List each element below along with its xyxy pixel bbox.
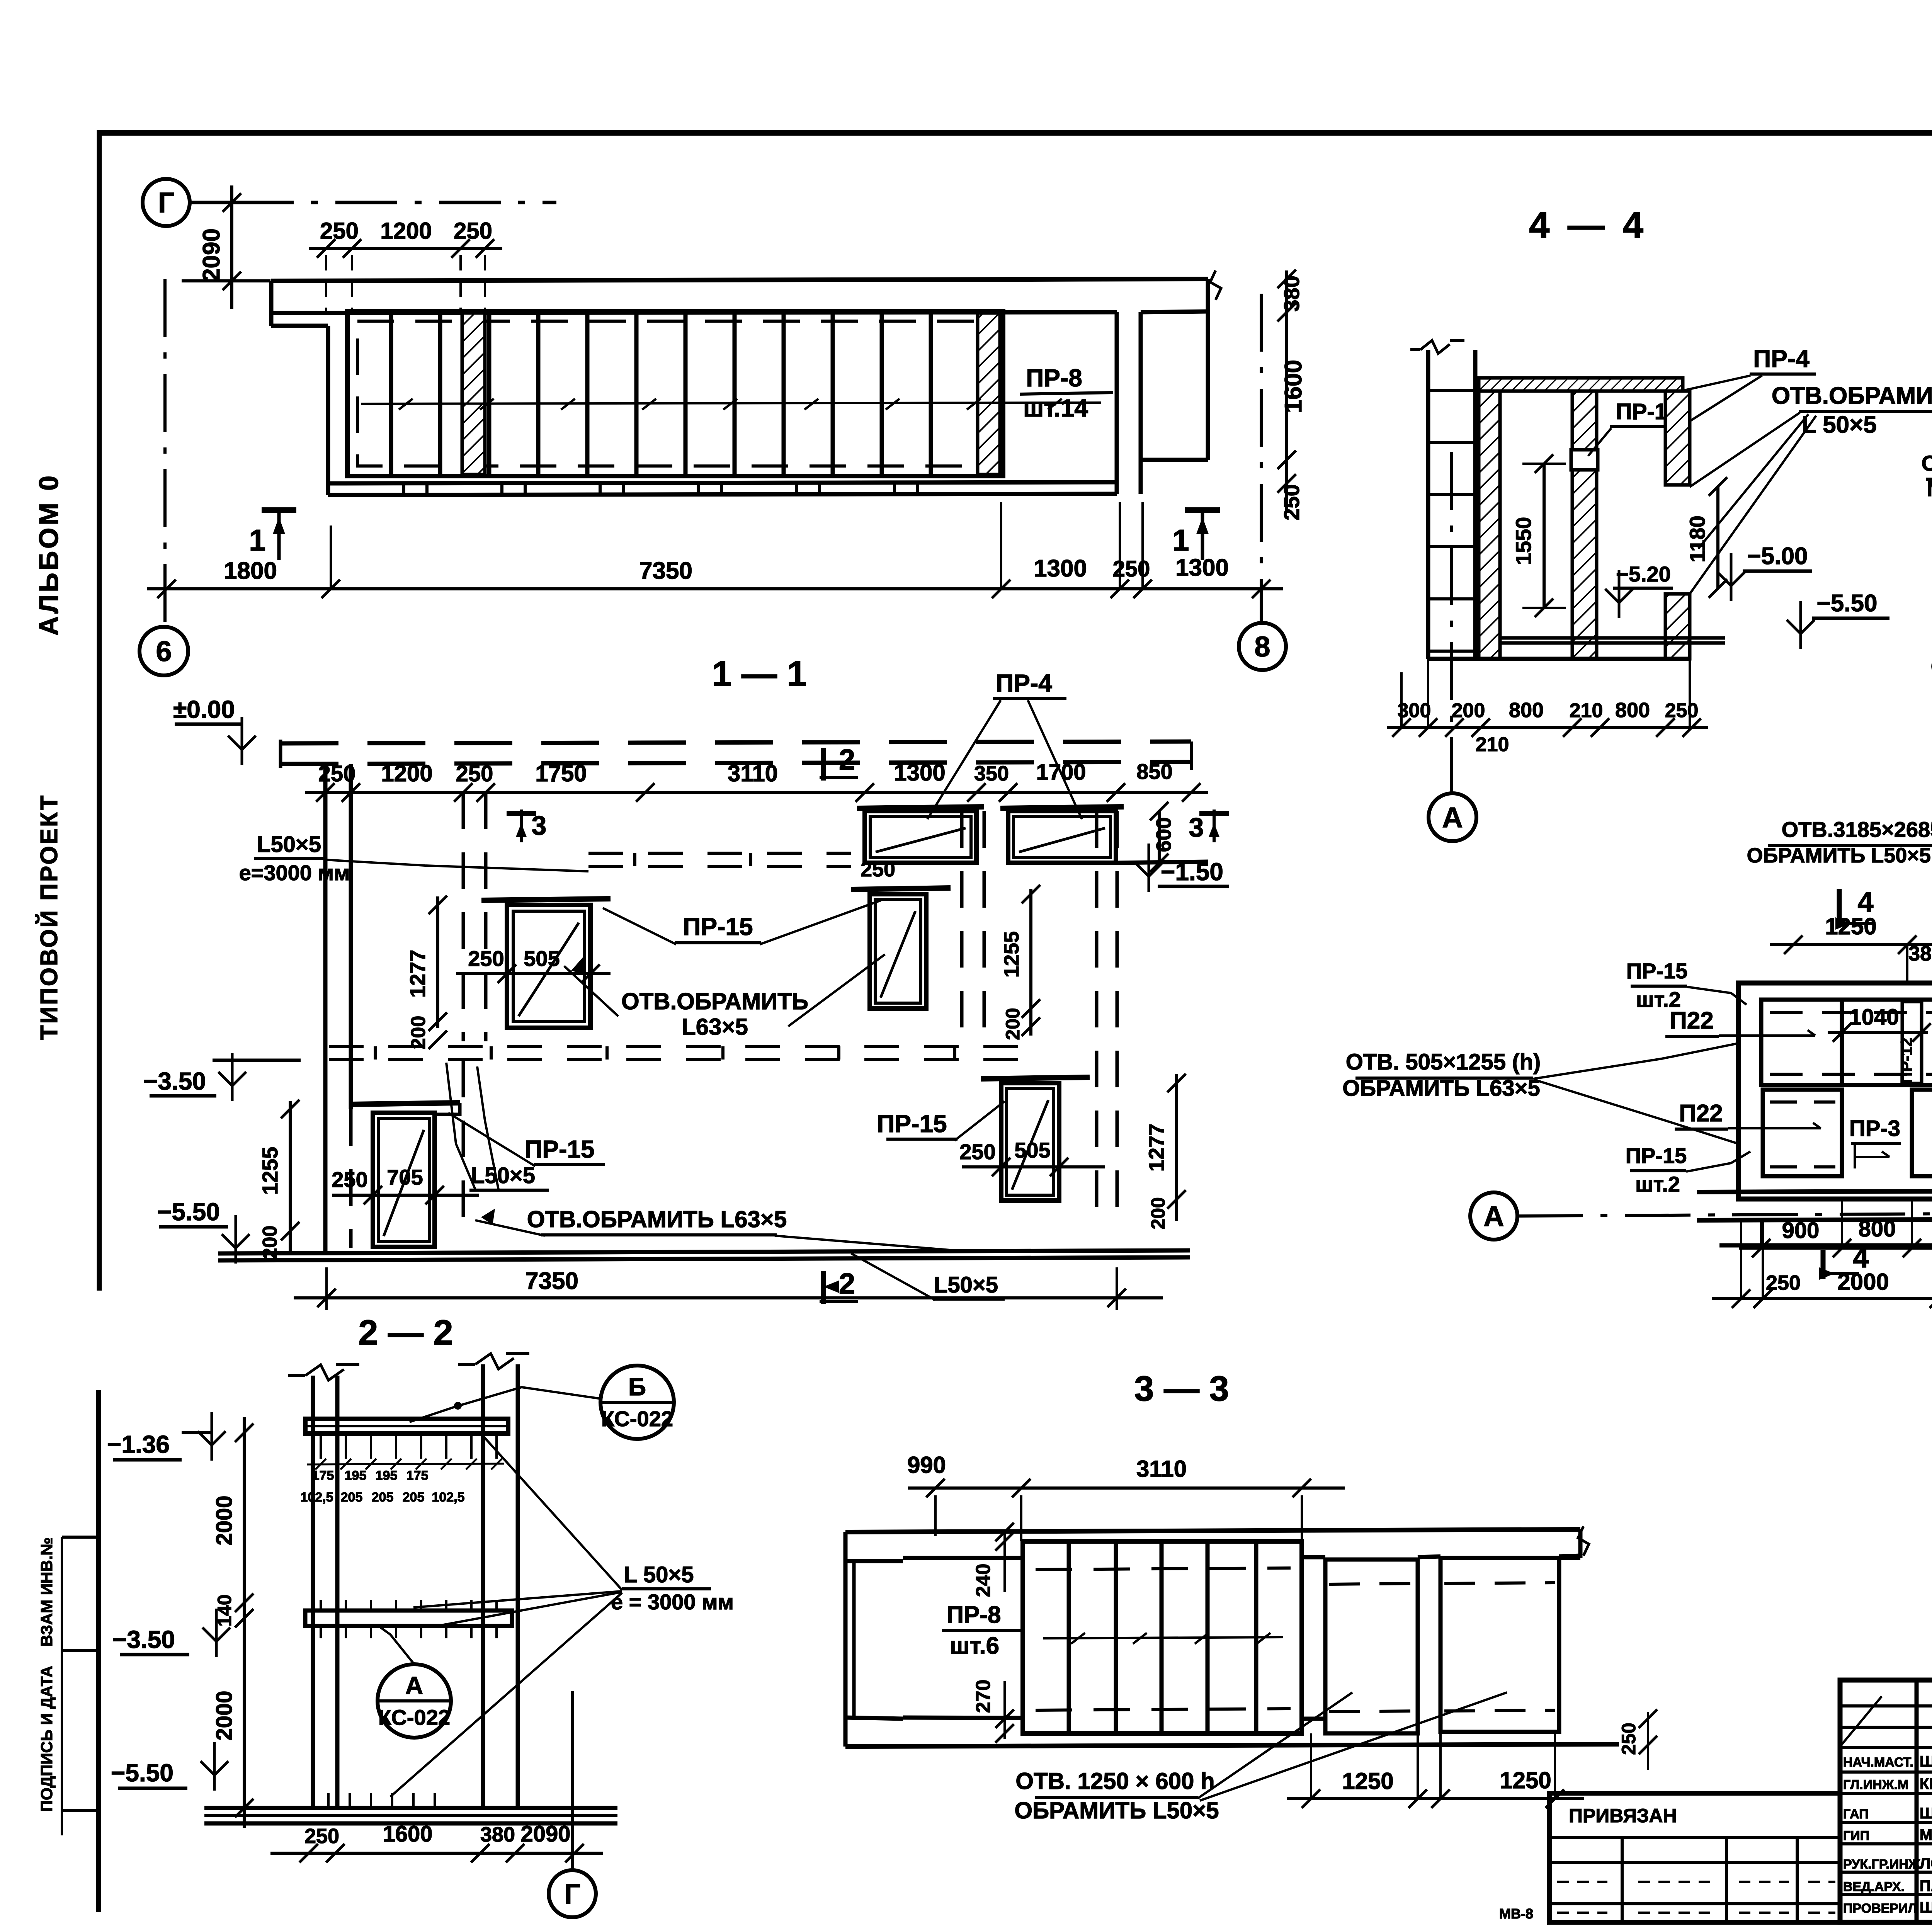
svg-text:250: 250 [456,761,493,786]
svg-text:1250: 1250 [1500,1767,1551,1793]
svg-text:А: А [405,1672,423,1699]
svg-text:ВЗАМ ИНВ.№: ВЗАМ ИНВ.№ [37,1537,56,1646]
vertical dim 2090 [230,185,233,309]
dim 1550 [1543,464,1546,608]
svg-text:КРИЧЕВСКИЙ: КРИЧЕВСКИЙ [1920,1775,1932,1793]
duct inner top line 3-3 [903,1556,1023,1560]
svg-text:250: 250 [1113,556,1150,582]
svg-text:ВЕД.АРХ.: ВЕД.АРХ. [1843,1879,1905,1894]
bottom dims 2-2 [270,1852,603,1855]
plan bottom wall lines [328,482,1117,483]
svg-text:380: 380 [1908,942,1932,965]
svg-text:−5.00: −5.00 [1747,543,1808,570]
opening ПР-3 left [1763,1090,1842,1176]
svg-text:210: 210 [1570,699,1603,722]
svg-text:ПОДПИСЬ И ДАТА: ПОДПИСЬ И ДАТА [37,1666,56,1812]
small dims row [307,1464,504,1464]
dims 1250 1250 [1287,1797,1584,1800]
svg-text:250: 250 [1766,1271,1801,1294]
svg-text:195: 195 [345,1468,367,1483]
-3.50 level [213,1059,301,1062]
ПР-1 insert [1571,450,1598,470]
svg-text:−5.20: −5.20 [1616,562,1671,586]
vertical dims 2000/140/2000 [243,1417,246,1828]
opening 1250x600 #1 [1325,1560,1418,1733]
plan left wall corner [269,281,274,326]
svg-text:3 — 3: 3 — 3 [1134,1369,1229,1408]
svg-text:1250: 1250 [1342,1768,1393,1794]
plan top wall line [271,279,1208,281]
signature table [1840,1680,1932,1922]
svg-text:ПР-8: ПР-8 [946,1602,1001,1628]
svg-text:L 50×5: L 50×5 [1802,412,1877,438]
svg-text:ОТВ.ОБРАМИТЬ L63×5: ОТВ.ОБРАМИТЬ L63×5 [527,1206,787,1232]
ПР-12 box [1902,1002,1922,1083]
svg-text:МВ-8: МВ-8 [1499,1906,1533,1922]
svg-text:250: 250 [959,1139,995,1164]
svg-text:102,5: 102,5 [432,1490,464,1505]
svg-text:ПР-15: ПР-15 [877,1110,947,1138]
svg-text:ОТВ. 1250 × 600 h: ОТВ. 1250 × 600 h [1015,1768,1214,1794]
svg-text:250: 250 [1665,699,1699,722]
floor slab [204,1806,617,1810]
svg-text:505: 505 [524,946,560,971]
rebar ticks floor [327,1793,330,1808]
right wall upper [1665,391,1690,485]
stamp ПРИВЯЗАН [1549,1793,1840,1922]
svg-text:850: 850 [1136,759,1172,784]
duct top wall [845,1529,1580,1532]
top beam [305,1419,508,1434]
svg-text:2000: 2000 [1837,1269,1889,1295]
svg-text:L50×5: L50×5 [471,1163,535,1188]
svg-text:175: 175 [406,1468,429,1483]
svg-text:ПРИВЯЗАН: ПРИВЯЗАН [1569,1805,1677,1827]
svg-text:250: 250 [1279,484,1304,520]
break marks at column tops [305,1365,344,1380]
svg-text:L50×5: L50×5 [257,832,321,857]
middle beam [305,1611,512,1626]
svg-text:−5.50: −5.50 [157,1198,220,1226]
grid circle 8 (plan) [1239,623,1286,670]
svg-text:−5.50: −5.50 [1817,590,1878,617]
middle window right ПР-15 [851,888,951,889]
svg-text:250: 250 [1618,1723,1639,1755]
svg-text:705: 705 [387,1165,423,1189]
grid circle А (4-4) [1429,793,1476,841]
right wall lower [1665,594,1690,659]
section mark 2 bottom [821,1271,826,1304]
grid line 8 (plan) [1260,294,1263,623]
svg-text:380: 380 [1279,276,1304,311]
svg-text:200: 200 [1002,1008,1024,1040]
column right [481,1364,485,1808]
section mark 1 left [262,507,296,513]
sheet top border [99,130,1932,136]
dashed verticals (grid) [462,793,465,1041]
svg-text:Б: Б [628,1373,646,1401]
svg-text:3110: 3110 [728,760,778,786]
column left [311,1376,315,1808]
svg-text:990: 990 [907,1452,946,1478]
svg-text:ОТВ. 505×1255 ОБРА-: ОТВ. 505×1255 ОБРА- [1922,451,1932,475]
svg-text:шт.6: шт.6 [950,1633,999,1659]
bottom dimension line of plan [147,587,1283,590]
svg-text:250: 250 [332,1167,367,1192]
lower-right window ПР-15 [981,1077,1090,1079]
svg-text:505: 505 [1014,1138,1050,1162]
opening ПР-3 right [1912,1090,1932,1176]
top dim 250/1200/250 [309,247,502,250]
svg-text:205: 205 [372,1490,394,1505]
svg-text:1200: 1200 [380,218,432,244]
hatched rib right [978,313,1000,474]
svg-text:ПР-4: ПР-4 [996,669,1052,697]
svg-text:шт.2: шт.2 [1635,1172,1680,1196]
section mark 4 bottom [1821,1250,1826,1279]
upper angle strip row [588,852,851,855]
dim 1255 right window [1029,889,1032,1036]
svg-text:1250: 1250 [1825,913,1876,939]
svg-text:200: 200 [1452,699,1485,722]
floor line 4-4 [1500,636,1725,640]
vertical dims lower-left 1255/200 [289,1101,292,1253]
bottom floor double line [218,1250,1190,1253]
sheet left border [97,130,102,1291]
svg-text:195: 195 [376,1468,398,1483]
small plan chamber [1738,983,1932,1199]
svg-text:−3.50: −3.50 [143,1067,206,1095]
left wall of section [323,764,328,1253]
svg-text:шт.2: шт.2 [1636,987,1681,1012]
svg-text:2090: 2090 [520,1821,570,1847]
svg-text:ОТВ. 505×1255 (h): ОТВ. 505×1255 (h) [1346,1049,1541,1075]
svg-text:3110: 3110 [1136,1456,1187,1482]
svg-text:2 — 2: 2 — 2 [358,1313,453,1352]
svg-text:ПР-4: ПР-4 [1753,345,1810,372]
svg-text:800: 800 [1509,699,1544,722]
svg-text:2000: 2000 [212,1690,237,1740]
svg-text:МИТЬ L63×5⌄н.5.30: МИТЬ L63×5⌄н.5.30 [1927,476,1932,501]
top dims 990 / 3110 [908,1486,1345,1490]
lower wall extra line [1719,1243,1932,1248]
svg-text:205: 205 [403,1490,425,1505]
reference circle Б/КС-022 [600,1366,674,1439]
svg-text:Г: Г [158,187,174,219]
bottom wall 3-3 [903,1718,1023,1718]
svg-text:КС-022: КС-022 [601,1406,673,1431]
svg-text:900: 900 [1782,1218,1820,1243]
rebar ticks top beam [320,1434,322,1459]
svg-text:250: 250 [861,858,895,881]
svg-text:3: 3 [1189,812,1204,842]
svg-text:А: А [1483,1200,1504,1232]
section mark 3 right [1199,811,1229,816]
section mark 4 top [1837,889,1842,927]
svg-text:±0.00: ±0.00 [173,696,235,723]
top slab hatched [1479,378,1683,391]
centerline 3-3 [1043,1637,1283,1638]
svg-text:e = 3000 мм: e = 3000 мм [611,1590,734,1614]
svg-text:ЛОГИНОВА: ЛОГИНОВА [1920,1855,1932,1872]
bottom dim line 4-4 [1387,726,1708,729]
ribs 3-3 [1067,1541,1071,1733]
svg-text:ОТВ.ОБРАМИТЬ: ОТВ.ОБРАМИТЬ [621,988,808,1014]
svg-text:2000: 2000 [212,1495,237,1545]
reference circle А/КС-022 [378,1664,451,1738]
svg-text:1180: 1180 [1685,515,1709,563]
opening 1250x600 #2 [1440,1558,1559,1732]
silencer box 3-3 [1023,1541,1302,1733]
svg-text:1750: 1750 [535,760,587,786]
svg-text:−1.50: −1.50 [1161,858,1223,886]
svg-text:ПРОВЕРИЛ: ПРОВЕРИЛ [1843,1901,1917,1916]
svg-text:1600: 1600 [1280,360,1307,413]
bottom dims row [1712,1297,1932,1300]
svg-text:ОБРАМИТЬ L50×5⌄н.−497: ОБРАМИТЬ L50×5⌄н.−497 [1747,844,1932,867]
svg-text:1300: 1300 [1034,555,1087,582]
svg-text:ШУМОВ: ШУМОВ [1920,1805,1932,1822]
svg-text:240: 240 [972,1564,995,1597]
svg-text:3: 3 [532,810,547,840]
section mark 3 left [507,811,536,816]
svg-text:2090: 2090 [198,228,225,282]
bottom wall band of plan [1697,1189,1932,1192]
svg-text:1800: 1800 [224,558,277,584]
svg-text:1200: 1200 [381,760,432,786]
svg-text:ГЛ.ИНЖ.М: ГЛ.ИНЖ.М [1843,1777,1908,1792]
svg-text:7350: 7350 [525,1268,578,1294]
svg-text:250: 250 [454,218,492,244]
svg-text:L63×5: L63×5 [682,1014,748,1040]
dim 1250/380 above small plan [1770,943,1932,946]
svg-text:140: 140 [214,1594,235,1626]
lower-left window ПР-15 [351,1103,460,1104]
svg-text:7350: 7350 [639,558,692,584]
grid line 6 [163,279,167,627]
svg-text:1277: 1277 [405,950,430,998]
svg-text:1300: 1300 [1175,554,1229,581]
svg-text:250: 250 [320,218,359,244]
dims 900/800 below [1739,1247,1932,1250]
svg-text:ШЕМЧУК: ШЕМЧУК [1920,1899,1932,1916]
duct left end [844,1532,848,1747]
grid line Г (2-2) [571,1691,574,1870]
svg-text:А: А [1442,801,1463,833]
svg-text:270: 270 [972,1680,995,1713]
grid line (4-4) [1450,452,1453,793]
svg-text:ПР-3: ПР-3 [1849,1116,1900,1141]
dim 7350 bottom [325,1267,328,1310]
grid circle Г (2-2) [549,1870,596,1917]
svg-text:1600: 1600 [383,1821,432,1847]
svg-text:ПР-1: ПР-1 [1616,399,1667,424]
middle wall [1572,391,1597,659]
svg-text:175: 175 [312,1468,334,1483]
mid dashed band (-3.50 floor) [329,1045,1039,1048]
svg-text:П22: П22 [1679,1100,1723,1127]
svg-text:200: 200 [1147,1197,1169,1229]
svg-text:ПР-15: ПР-15 [683,913,753,940]
top slab dashed double line [281,742,1191,743]
svg-text:ОТВ.ОБРАМИТЬ: ОТВ.ОБРАМИТЬ [1772,383,1932,409]
svg-text:шт.14: шт.14 [1023,394,1088,422]
svg-text:ПР-8: ПР-8 [1026,364,1082,392]
svg-text:1: 1 [1172,523,1189,557]
masonry wall left [1426,350,1430,659]
svg-text:350: 350 [974,762,1009,785]
silencer centerline with ticks [361,403,1101,404]
svg-text:ГИП: ГИП [1843,1828,1869,1843]
svg-text:−1.36: −1.36 [107,1430,170,1458]
svg-text:800: 800 [1615,699,1650,722]
svg-text:380: 380 [480,1823,515,1846]
silencer ribs [389,311,393,476]
dim line under slab [305,791,1208,794]
svg-text:L50×5: L50×5 [934,1272,998,1298]
svg-text:ОТВ.1750×1600 (h): ОТВ.1750×1600 (h) [1931,654,1932,679]
svg-text:ПР-12: ПР-12 [1897,1038,1915,1084]
section mark 2 top [821,748,826,781]
svg-text:ШЕСТОПАЛОВ: ШЕСТОПАЛОВ [1920,1753,1932,1770]
plan second wall line [271,312,1117,313]
svg-text:250: 250 [468,946,504,971]
svg-text:205: 205 [341,1490,363,1505]
svg-text:1277: 1277 [1144,1124,1168,1172]
svg-text:−5.50: −5.50 [111,1759,173,1787]
svg-text:1550: 1550 [1511,517,1536,565]
break mark right top [1210,270,1221,300]
svg-text:РУК.ГР.ИНЖ: РУК.ГР.ИНЖ [1843,1857,1920,1872]
hatched rib left [462,313,485,474]
transom window ПР-4 #1 [857,807,984,808]
svg-text:ПР-15: ПР-15 [1626,959,1688,983]
silencer unit box [347,311,1003,476]
support notches under silencer box [402,483,405,495]
svg-text:1255: 1255 [258,1147,282,1195]
grid line Г leader [190,201,232,204]
svg-text:1 — 1: 1 — 1 [712,654,806,694]
svg-text:8: 8 [1254,631,1270,663]
svg-text:ТИПОВОЙ ПРОЕКТ: ТИПОВОЙ ПРОЕКТ [36,794,63,1040]
svg-text:1255: 1255 [1000,931,1023,978]
hatched wall [1479,378,1500,659]
small plan upper box [1761,1000,1932,1085]
svg-text:Г: Г [564,1878,580,1910]
svg-text:АЛЬБОМ 0: АЛЬБОМ 0 [34,473,64,636]
svg-text:ГАП: ГАП [1843,1807,1869,1821]
svg-text:ПР-15: ПР-15 [524,1135,594,1163]
svg-text:200: 200 [407,1016,430,1049]
svg-text:ОТВ.3185×2685 (h): ОТВ.3185×2685 (h) [1782,817,1932,842]
svg-text:ОБРАМИТЬ L50×5: ОБРАМИТЬ L50×5 [1014,1798,1219,1823]
svg-text:1300: 1300 [894,760,945,786]
dim 1180 [1716,486,1719,588]
grid circle Г [143,179,190,226]
svg-text:250: 250 [304,1825,339,1848]
svg-text:210: 210 [1476,733,1509,756]
svg-text:e=3000 мм: e=3000 мм [239,861,350,885]
svg-text:МИЛКОВСКИЙ: МИЛКОВСКИЙ [1920,1826,1932,1844]
svg-text:ОБРАМИТЬ L63×5: ОБРАМИТЬ L63×5 [1342,1076,1540,1101]
grid circle 6 [139,627,188,675]
svg-text:1: 1 [249,523,265,557]
vertical dims lower-right 1277/200 [1175,1074,1178,1221]
svg-text:4 — 4: 4 — 4 [1529,204,1647,246]
transom window ПР-4 #2 [1000,807,1124,808]
right vertical dims 380/1600/250 [1285,270,1288,510]
svg-text:2: 2 [839,1267,855,1300]
right end walls [1559,1556,1580,1560]
grid circle А (plan) [1470,1192,1517,1240]
section mark 1 right [1185,507,1220,513]
svg-text:600: 600 [1152,817,1175,852]
svg-text:2: 2 [839,743,855,776]
plan right walls [1115,312,1119,494]
svg-text:102,5: 102,5 [300,1490,333,1505]
svg-text:1040: 1040 [1849,1005,1899,1030]
svg-text:ПАНФЕРОВ: ПАНФЕРОВ [1920,1878,1932,1895]
svg-text:6: 6 [156,635,172,667]
right chamber -1.50 floor [1116,862,1208,863]
svg-text:−3.50: −3.50 [112,1626,175,1653]
svg-text:L 50×5: L 50×5 [624,1562,694,1587]
svg-text:КС-022: КС-022 [378,1705,450,1730]
dim 1277 left window [436,896,439,1028]
svg-text:ПР-15: ПР-15 [1626,1143,1687,1168]
middle window left ПР-15 [481,899,611,900]
svg-text:НАЧ.МАСТ.: НАЧ.МАСТ. [1843,1755,1913,1770]
svg-text:800: 800 [1859,1216,1896,1242]
